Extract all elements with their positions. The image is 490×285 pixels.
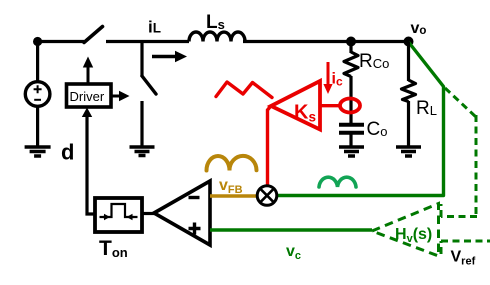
teal sine waveform — [319, 177, 356, 187]
wire Ks to current sensor — [320, 104, 341, 107]
svg-text:RCo: RCo — [359, 51, 389, 72]
wire vFB olive from comparator minus to summer — [210, 194, 257, 198]
red vertical wire Ks output to summer — [268, 107, 271, 186]
svg-text:Hv(s): Hv(s) — [395, 226, 432, 245]
dashed green vertical right — [475, 115, 478, 217]
ground below low-side switch — [130, 147, 155, 156]
svg-text:Ls: Ls — [206, 12, 225, 33]
ground below Co — [339, 147, 364, 156]
resistor RL — [402, 80, 416, 102]
inductor Ls — [189, 32, 245, 42]
ground below RL — [396, 147, 421, 156]
wire switch node to low-side switch — [140, 40, 143, 77]
wire low-side switch bottom — [140, 101, 143, 146]
arrow into driver bottom — [82, 108, 92, 118]
wire RCo branch top — [349, 42, 352, 54]
dashed green stub from Hv bottom corner — [440, 241, 443, 254]
node junction source/rail — [33, 37, 42, 46]
wire Co bottom — [349, 134, 352, 146]
dashed green stub to Hv top corner — [440, 204, 443, 217]
svg-text:d: d — [61, 140, 74, 165]
arrow driver to low-side switch — [111, 95, 119, 98]
Ton pulse symbol — [103, 204, 134, 217]
svg-text:Vref: Vref — [451, 249, 476, 268]
wire top rail left segment — [36, 40, 84, 43]
arrow driver to high-side switch — [87, 67, 90, 84]
switch S1 (high side) — [84, 27, 103, 43]
svg-text:Driver: Driver — [70, 89, 105, 104]
arrow ic — [327, 62, 330, 85]
minus input mark — [189, 196, 200, 199]
green feedback path vo to summer — [277, 42, 444, 196]
switch S2 (low side) — [142, 76, 156, 94]
current sensor red circle — [340, 99, 360, 113]
Ton block — [95, 198, 142, 232]
comparator U2 — [154, 181, 210, 245]
svg-text:Ton: Ton — [99, 237, 128, 260]
compensator Hv(s) dashed triangle — [372, 204, 439, 257]
summer node (multiplier circle) — [257, 186, 277, 206]
svg-text:vc: vc — [286, 243, 301, 262]
wire RCo to Co — [349, 76, 352, 123]
wire RL bottom — [407, 101, 410, 146]
svg-text:iL: iL — [148, 18, 161, 37]
olive waveform vFB ripple — [207, 156, 257, 171]
wire input source top — [36, 42, 39, 83]
dashed green horizontal into Hv top input — [441, 215, 477, 218]
svg-text:vFB: vFB — [219, 177, 243, 196]
node vo — [404, 37, 414, 47]
plus input mark — [189, 223, 201, 235]
voltage source V1 — [25, 82, 50, 107]
wire top rail right segment — [243, 40, 408, 43]
svg-text:vo: vo — [411, 20, 427, 37]
dashed green Vref line — [441, 240, 490, 243]
node junction at RCo branch — [346, 37, 356, 47]
wire RL branch top — [407, 42, 410, 82]
red ripple waveform — [216, 82, 272, 98]
svg-text:Co: Co — [367, 119, 388, 140]
amplifier Ks — [271, 81, 320, 130]
arrow iL direction — [152, 55, 176, 59]
wire d from Ton to driver — [87, 116, 95, 214]
wire top rail middle segment — [106, 40, 189, 43]
wire source bottom — [36, 107, 39, 147]
svg-text:ic: ic — [332, 71, 343, 89]
wire Ton to comparator — [142, 212, 156, 215]
capacitor Co — [339, 125, 364, 133]
resistor RCo — [344, 52, 358, 77]
svg-text:RL: RL — [416, 98, 437, 119]
green wire vc to comparator plus — [210, 228, 372, 231]
dashed green diagonal from vo branch — [445, 88, 476, 117]
ground below source — [25, 147, 51, 156]
driver block U1 — [67, 84, 112, 107]
